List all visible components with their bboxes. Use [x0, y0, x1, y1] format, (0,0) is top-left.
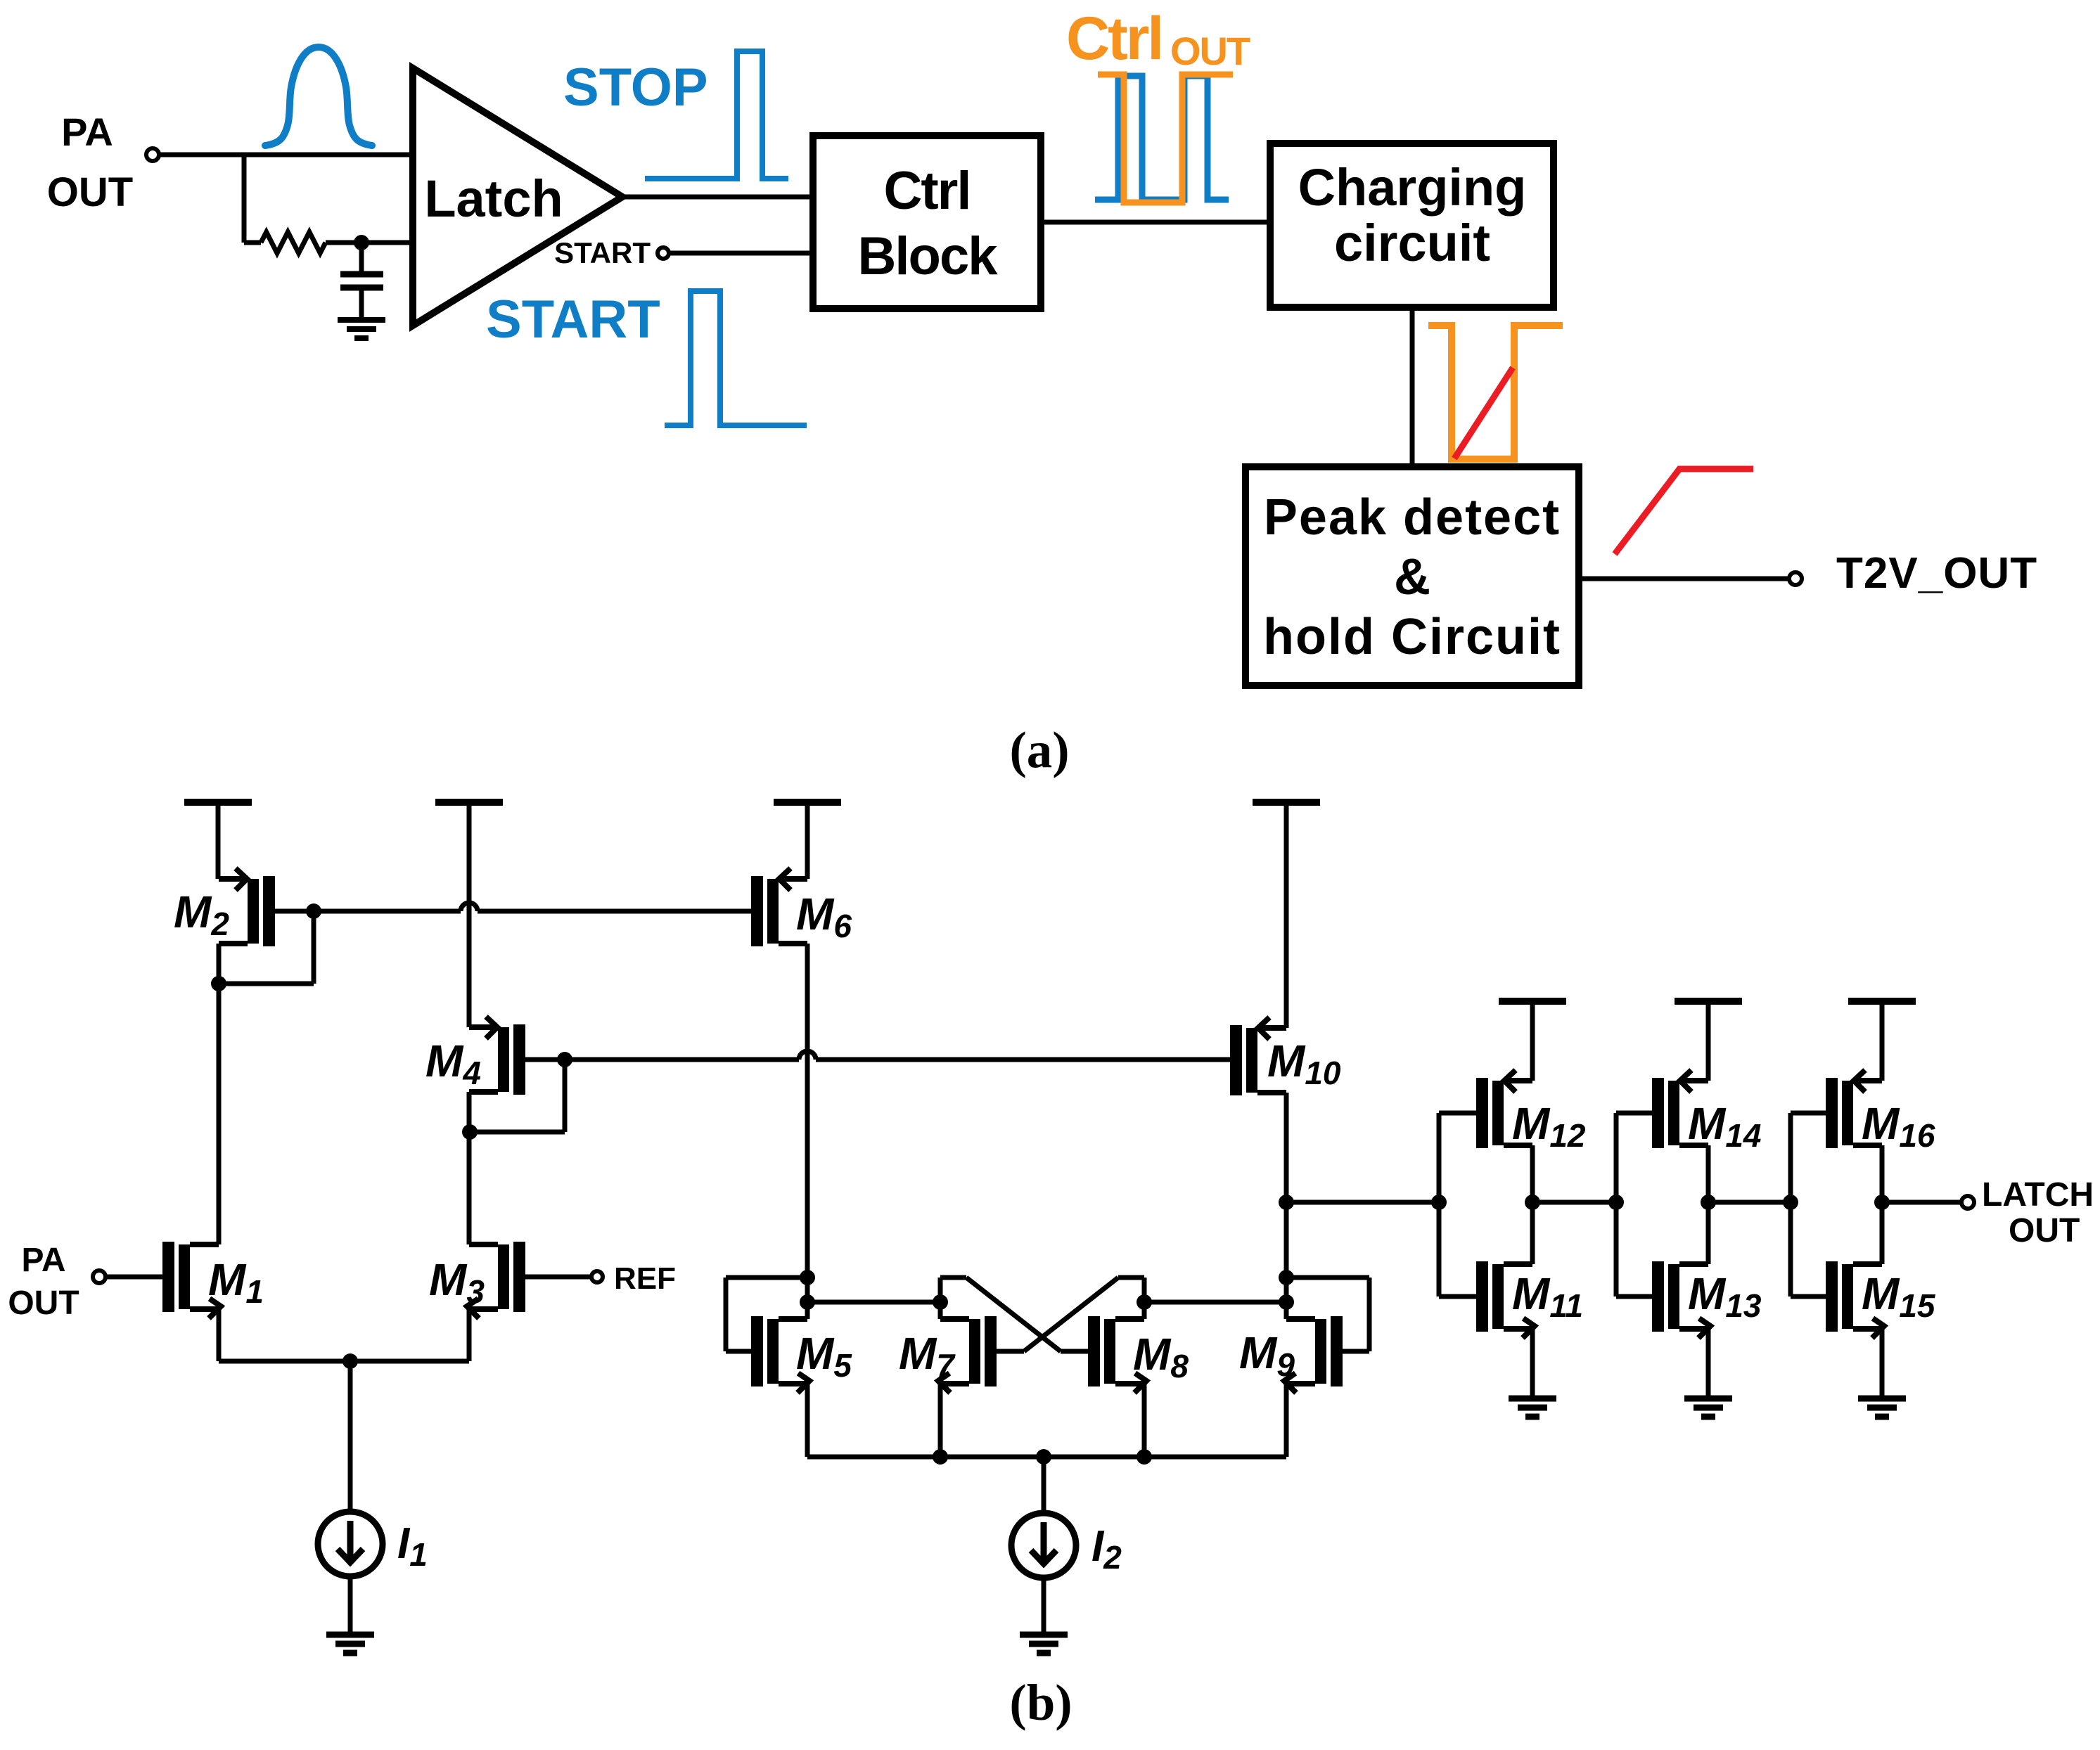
terminal LATCH OUT [1961, 1196, 1974, 1209]
wire inverter 3 gates [1791, 1113, 1826, 1297]
wire M8 drain to M9 drain [1144, 1300, 1286, 1305]
CtrlOUT waveform orange [1098, 75, 1233, 202]
VDD rail (M4) [435, 802, 503, 1027]
wire Charging circuit to Peak detect [1410, 307, 1415, 467]
node rail-M8 [1137, 1449, 1152, 1465]
svg-text:PA: PA [21, 1242, 65, 1279]
node inverter 1 input [1431, 1195, 1447, 1210]
wire M9 source to rail [1284, 1384, 1289, 1457]
wire inverter 3 output [1882, 1200, 1962, 1205]
wire M15 drain to node [1880, 1202, 1885, 1264]
wire M6 drain down to latch core [805, 944, 810, 1319]
svg-text:Peak detect: Peak detect [1264, 489, 1561, 546]
svg-text:Charging: Charging [1298, 158, 1527, 217]
svg-text:REF: REF [614, 1261, 676, 1296]
wire M4 drain to M3 drain [467, 1092, 472, 1244]
svg-text:Ctrl: Ctrl [884, 161, 971, 221]
wire M5 gate diode loop [726, 1278, 807, 1351]
node inverter 2 output [1701, 1195, 1716, 1210]
transistor M1 [162, 1242, 264, 1318]
wire PA OUT to M1 gate [105, 1275, 162, 1280]
block Ctrl Block [813, 136, 1041, 309]
ground (M15) [1858, 1398, 1906, 1417]
svg-text:&: & [1394, 549, 1430, 605]
charging ramp waveform red [1454, 368, 1513, 458]
wire resistor to latch lower input [326, 240, 413, 245]
wire M4 gate to M10 gate with hop [565, 1051, 1230, 1060]
ground (RC filter) [338, 320, 385, 338]
transistor M14 [1652, 1070, 1761, 1154]
svg-text:STOP: STOP [563, 58, 708, 117]
label T2V_OUT [1836, 549, 2037, 598]
current source I2 [1011, 1513, 1122, 1578]
wire M16 drain to node [1880, 1145, 1885, 1202]
block Charging circuit [1270, 143, 1554, 307]
wire tail to I1 [348, 1361, 353, 1512]
ground (I2) [1020, 1635, 1068, 1653]
capacitor C (lowpass) [340, 274, 383, 320]
wire M14 drain to node [1706, 1145, 1711, 1202]
wire M7 drain up [938, 1278, 943, 1319]
STOP pulse waveform [645, 51, 788, 179]
wire Ctrl Block to Charging circuit [1041, 220, 1270, 225]
START pulse waveform [665, 291, 807, 425]
node inverter 3 input [1783, 1195, 1798, 1210]
wire M13 drain to node [1706, 1202, 1711, 1264]
transistor M12 [1476, 1070, 1586, 1154]
wire M2 gate-drain tie [219, 911, 314, 984]
label STOP [563, 58, 708, 117]
transistor M4 [425, 1017, 525, 1095]
terminal PA OUT [146, 148, 159, 161]
svg-text:circuit: circuit [1334, 214, 1490, 272]
wire inverter 2 output [1708, 1200, 1791, 1205]
label START [486, 290, 660, 349]
node rail-M7 [933, 1449, 948, 1465]
node M7 drain junction [933, 1294, 948, 1310]
wire M2 drain to M1 drain [217, 944, 222, 1244]
svg-text:OUT: OUT [2009, 1212, 2080, 1249]
wire M10 drain down to M9 drain [1284, 1093, 1289, 1319]
terminal T2V_OUT [1789, 572, 1802, 585]
source rail (latch core) [807, 1455, 1286, 1460]
svg-text:Ctrl: Ctrl [1066, 5, 1162, 72]
wire M13 source to ground [1706, 1329, 1711, 1398]
transistor M8 [1088, 1316, 1189, 1393]
svg-text:Block: Block [858, 226, 999, 286]
ground (I1) [326, 1635, 374, 1653]
node M10 drain / M9 gate [1279, 1270, 1294, 1285]
wire inverter 2 gates [1616, 1113, 1652, 1297]
caption (b) [1009, 1674, 1072, 1731]
wire to resistor [244, 240, 261, 245]
op-amp latch comparator [413, 68, 622, 326]
transistor M6 [751, 868, 852, 946]
label PA OUT (b) [8, 1242, 79, 1322]
node junction RC [354, 235, 369, 250]
node M9 drain wire junction [1279, 1294, 1294, 1310]
wire M4 gate to node [525, 1057, 565, 1062]
VDD rail (M10) [1253, 802, 1320, 1028]
wire M1 source to tail rail [219, 1309, 469, 1361]
wire I1 to ground [348, 1576, 353, 1635]
wire M8 drain up [1142, 1278, 1147, 1319]
svg-text:T2V_OUT: T2V_OUT [1836, 549, 2037, 598]
wire PA OUT to latch top input [159, 153, 413, 157]
block Peak detect and hold Circuit [1246, 467, 1579, 686]
node rail-I2 [1036, 1449, 1051, 1465]
wire M11 source to ground [1530, 1329, 1535, 1398]
transistor M11 [1476, 1261, 1583, 1338]
label START (input) [554, 236, 651, 269]
transistor M16 [1826, 1070, 1935, 1154]
terminal START [658, 247, 669, 259]
wire M8 source to rail [1142, 1384, 1147, 1457]
svg-text:OUT: OUT [8, 1285, 79, 1322]
wire to M7 drain [807, 1300, 940, 1305]
svg-text:OUT: OUT [47, 169, 133, 215]
input label PA OUT [47, 110, 133, 215]
label LATCH OUT [1982, 1176, 2094, 1249]
svg-text:START: START [486, 290, 660, 349]
caption (a) [1009, 721, 1069, 778]
label CtrlOUT [1066, 5, 1250, 73]
VDD rail (M6) [774, 802, 841, 879]
wire M12 drain to node [1530, 1145, 1535, 1202]
wire M11 drain to node [1530, 1202, 1535, 1264]
wire node to capacitor [359, 243, 364, 274]
wire M4 gate-drain tie [470, 1060, 565, 1132]
terminal PA OUT (b) [93, 1270, 105, 1283]
svg-text:START: START [554, 236, 651, 269]
svg-text:(b): (b) [1009, 1674, 1072, 1731]
wire rail to I2 [1042, 1457, 1046, 1513]
transistor M3 [429, 1242, 525, 1318]
wire M9 gate diode loop [1286, 1278, 1369, 1351]
terminal REF [591, 1271, 603, 1282]
wire M3 source to tail rail [467, 1309, 472, 1361]
svg-text:OUT: OUT [1170, 29, 1250, 73]
node latch output A [1279, 1195, 1294, 1210]
svg-text:hold Circuit: hold Circuit [1263, 609, 1561, 665]
VDD rail (M12) [1499, 1001, 1566, 1081]
wire M7 source to rail [938, 1384, 943, 1457]
VDD rail (M2) [184, 802, 252, 879]
node inverter 3 output [1874, 1195, 1890, 1210]
wire START to Ctrl Block [669, 251, 813, 256]
wire inverter 1 output [1532, 1200, 1616, 1205]
transistor M7 [899, 1316, 997, 1393]
node tail junction [342, 1353, 358, 1369]
CtrlOUT waveform blue pulses [1095, 76, 1229, 200]
VDD rail (M14) [1675, 1001, 1742, 1081]
wire Peak detect to T2V_OUT [1579, 577, 1790, 581]
wire branch vertical [242, 155, 247, 243]
svg-text:LATCH: LATCH [1982, 1176, 2094, 1214]
input pulse waveform (bell curve) [265, 47, 372, 146]
svg-text:(a): (a) [1009, 721, 1069, 778]
wire I2 to ground [1042, 1578, 1046, 1635]
transistor M13 [1652, 1261, 1762, 1338]
transistor M5 [751, 1316, 852, 1393]
node M2 gate junction [306, 903, 321, 919]
wire M8 drain to M7 gate (cross-couple) [997, 1278, 1144, 1351]
wire M5 source to rail [805, 1384, 810, 1457]
label REF [614, 1261, 676, 1296]
svg-text:PA: PA [61, 110, 113, 154]
wire M7 drain to M8 gate (cross-couple) [940, 1278, 1088, 1351]
wire M3 gate to REF [525, 1275, 591, 1280]
node inverter 1 output [1525, 1195, 1540, 1210]
ground (M11) [1509, 1398, 1556, 1417]
node M6 drain / M5 gate junction [800, 1270, 815, 1285]
wire node A to inverter 1 [1286, 1200, 1439, 1205]
T2V output ramp waveform red [1615, 469, 1753, 554]
node M4 gate junction [557, 1052, 572, 1067]
node M6 drain / M7 drain junction [800, 1294, 815, 1310]
transistor M2 [174, 868, 275, 946]
VDD rail (M16) [1848, 1001, 1916, 1081]
transistor M9 [1239, 1316, 1343, 1393]
charging ramp waveform orange notch [1428, 326, 1563, 459]
node M4 drain junction [462, 1124, 478, 1140]
node inverter 2 input [1608, 1195, 1624, 1210]
wire inverter 1 gates [1439, 1113, 1476, 1297]
node M2 drain junction [211, 976, 226, 991]
current source I1 [318, 1512, 428, 1576]
transistor M10 [1230, 1017, 1341, 1095]
node M8 drain junction [1137, 1294, 1152, 1310]
wire M2 gate to M6 gate with hop [314, 903, 751, 911]
ground (M13) [1684, 1398, 1732, 1417]
svg-text:Latch: Latch [424, 169, 563, 228]
resistor R (lowpass) [261, 232, 326, 253]
wire M15 source to ground [1880, 1329, 1885, 1398]
wire latch output to Ctrl Block [622, 195, 813, 200]
wire M2 gate to node [275, 909, 314, 914]
transistor M15 [1826, 1261, 1936, 1338]
